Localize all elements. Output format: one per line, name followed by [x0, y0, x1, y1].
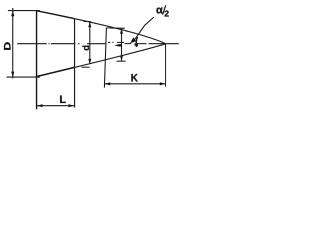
- cone large-end edge (vertical) + L left extension: [36, 10, 38, 109]
- tick at d bottom: [82, 66, 90, 68]
- svg-text:α: α: [156, 4, 163, 16]
- leader line for alpha/2 (bent): [135, 17, 155, 40]
- arrow d bottom: [88, 59, 91, 64]
- arrow K right: [160, 82, 166, 85]
- dimension line d: [89, 22, 91, 65]
- arrow gauge bottom: [120, 56, 123, 61]
- tick at gauge bottom: [117, 60, 126, 62]
- arrow D top: [11, 11, 14, 17]
- arrow L left: [37, 104, 43, 107]
- leader arrowhead: [130, 37, 136, 43]
- arrow d top: [88, 22, 91, 27]
- cone top edge (thick frustum part): [36, 11, 74, 19]
- arrow L right: [69, 104, 75, 107]
- extension line K right (below apex): [165, 44, 167, 87]
- gauge diameter dimension line (vertical): [121, 28, 123, 61]
- left-pointing arrow on axis (angle dim): [114, 44, 121, 46]
- angle arc alpha/2: [136, 37, 137, 47]
- tick at d top: [84, 21, 91, 23]
- cone bottom edge continuation to apex (thin): [75, 44, 166, 68]
- svg-text:D: D: [3, 41, 13, 50]
- svg-text:L: L: [59, 94, 66, 106]
- gauge-plane tick (horizontal, from V3 junction): [106, 27, 125, 29]
- arrow D bottom: [11, 72, 14, 78]
- svg-text:2: 2: [164, 9, 169, 19]
- angle arc lower arrowhead: [134, 43, 139, 46]
- dimension line D: [12, 8, 14, 78]
- dimension line L: [37, 105, 75, 107]
- cone small-end edge (vertical) + L right extension: [74, 19, 76, 108]
- svg-text:d: d: [81, 45, 92, 51]
- extension line bottom-left (for D): [7, 76, 40, 78]
- cone top edge continuation to apex (thin): [75, 19, 166, 44]
- arrow gauge top: [120, 28, 123, 33]
- dimension line K: [105, 83, 166, 85]
- cone bottom edge (thick frustum part): [36, 67, 74, 76]
- extension line top-left (for D): [8, 10, 40, 12]
- fraction slash: [163, 5, 166, 14]
- extension line K left (slightly tilted vertical): [104, 28, 106, 88]
- arrow K left: [105, 82, 111, 85]
- centerline (cone axis, dash-dot): [17, 42, 179, 43]
- svg-text:K: K: [131, 72, 138, 84]
